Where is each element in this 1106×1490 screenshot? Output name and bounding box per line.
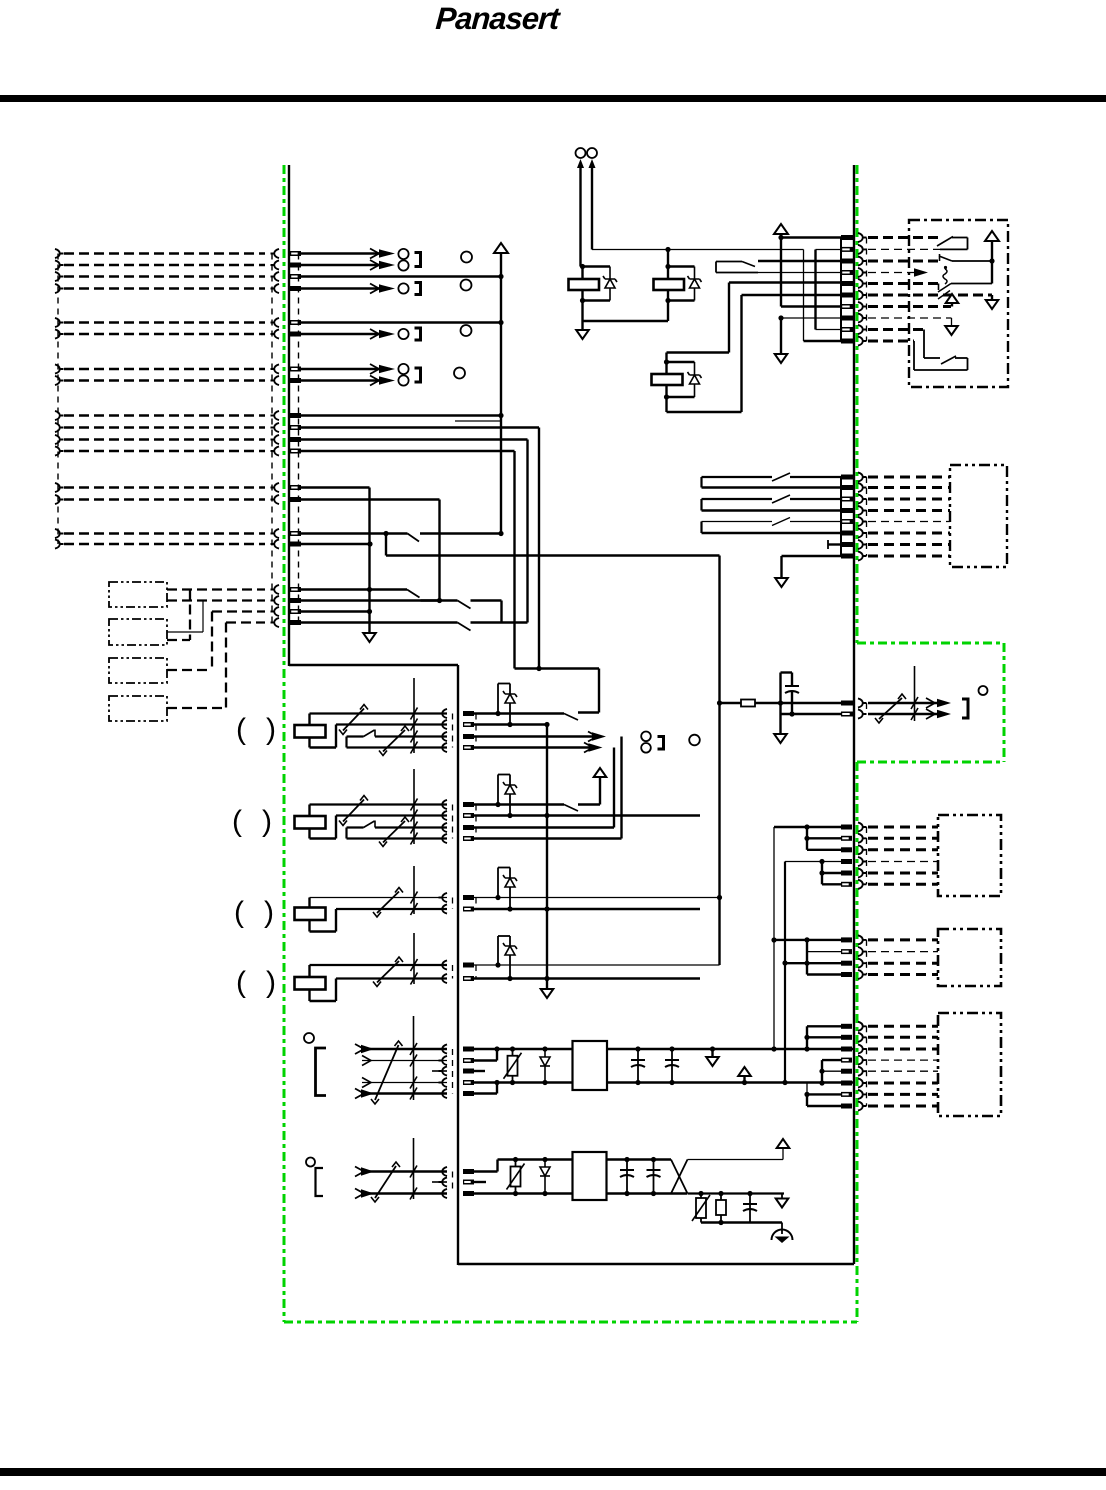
earth ground: [750, 1221, 782, 1223]
pendant bracket: [962, 699, 968, 718]
row 306 up arrow: [951, 302, 953, 307]
LD hooks: [439, 960, 448, 969]
wire row 334 lamp: [300, 333, 390, 335]
sensor box S2: [109, 619, 167, 645]
LB row3 wire up to lampA: [474, 826, 614, 828]
contact bar K3a: [700, 522, 702, 534]
group2 hooks: [858, 935, 867, 944]
row 341 wire: [804, 340, 842, 342]
power F blade: [375, 1166, 396, 1198]
LA row2: [336, 723, 447, 725]
power F pins: [463, 1169, 474, 1174]
row 237 wire: [781, 236, 841, 238]
indicator circle L1: [461, 252, 472, 263]
top rule: [0, 95, 1106, 102]
connector CN1 board pins: [290, 251, 301, 256]
snubber resistor: [720, 1194, 722, 1223]
LC row1 wire to bus719: [474, 897, 720, 899]
snubber rail: [688, 1192, 785, 1194]
lamp L3: [398, 329, 408, 339]
wire row 533 switch to bus: [300, 532, 408, 534]
svg-text:): ): [262, 805, 272, 838]
power F top rail: [498, 1158, 672, 1160]
LC row2 wire: [474, 908, 700, 910]
LB blade2: [383, 821, 405, 843]
up arrow B: [594, 768, 607, 777]
wire to supply arrow F: [688, 1159, 784, 1161]
cable harness CN3 wires: [55, 364, 64, 373]
cable harness CN6 wires: [55, 529, 64, 538]
ground arrow K1: [581, 321, 583, 329]
LD tick line: [413, 933, 415, 984]
row 556 ground: [782, 555, 842, 557]
ground arrow common: [541, 989, 554, 998]
cable harness CN4 wires: [55, 411, 64, 420]
pendant indicator circle: [979, 686, 988, 695]
board edge left upper: [288, 165, 290, 666]
row 329 wire: [816, 329, 842, 331]
pendant arrows: [937, 699, 951, 707]
capacitor C3: [626, 1160, 628, 1194]
stub wire 421: [455, 420, 501, 422]
power supply module PS1: [573, 1041, 608, 1090]
cable harness CN5 wires: [55, 483, 64, 492]
feed wire 2: [591, 163, 593, 250]
LB row1 wire switch: [474, 803, 564, 805]
feed arrows up: [577, 159, 584, 168]
power F bottom rail: [474, 1192, 687, 1194]
snubber bottom rail: [701, 1221, 750, 1223]
LB row4: [345, 828, 347, 839]
snubber capacitor: [749, 1194, 751, 1223]
wire to pin row272: [758, 272, 841, 274]
connector CN6 board pins: [290, 531, 301, 536]
svg-text:(: (: [234, 896, 244, 929]
lamp L1: [398, 249, 408, 259]
svg-text:(: (: [232, 805, 242, 838]
box rows dashed: [868, 236, 940, 239]
svg-text:(: (: [236, 713, 246, 746]
pendant cap loop: [779, 673, 781, 704]
connector pin dashed link: [298, 254, 300, 623]
power F pin jog: [474, 1170, 498, 1172]
indicator circle L3: [461, 325, 472, 336]
feed from upper buses: [515, 667, 600, 669]
LB hooks: [439, 800, 448, 809]
pendant switch rows: [868, 702, 944, 705]
latch relay LB coil: [295, 816, 326, 829]
operation dash-dot box: [950, 465, 1007, 567]
connector bar right middle: [840, 477, 842, 556]
connector CN4 board pins: [290, 413, 301, 418]
LB blade1: [343, 800, 364, 822]
green operator panel bump: [857, 642, 1004, 645]
diode D4: [544, 1049, 546, 1083]
relay K2 coil: [654, 279, 685, 290]
wire row 499 down: [300, 498, 440, 500]
LA row3 lamp wire: [474, 735, 598, 737]
power symbol E bracket: [316, 1048, 327, 1096]
wire row 288 lamp: [300, 287, 390, 289]
ground arrow right weave: [775, 354, 788, 363]
LA row1 wire switch: [474, 712, 564, 714]
green chassis border right lower: [856, 762, 859, 1322]
green chassis border bottom: [284, 1321, 857, 1324]
bottom rule: [0, 1468, 1106, 1476]
LB wiring: [308, 805, 310, 817]
power symbol F circle: [306, 1158, 315, 1167]
hook dashed link top right: [866, 238, 868, 342]
row 318 down arrow: [951, 318, 953, 326]
pendant ground: [779, 703, 781, 734]
contact bar K2a: [700, 499, 702, 511]
group1 dashed wires: [868, 826, 938, 829]
LA blade1: [343, 709, 364, 731]
svg-text:): ): [266, 713, 276, 746]
group1 hooks: [858, 822, 867, 831]
sensor box S3: [109, 658, 167, 683]
group2 pins: [841, 937, 852, 942]
row 544 stub: [828, 543, 841, 545]
indicator circle L4: [454, 368, 465, 379]
board edge bottom: [458, 1263, 854, 1265]
sensor row wires on board: [300, 588, 407, 590]
varistor VR1: [512, 1049, 514, 1083]
LB row1: [310, 803, 448, 805]
group1 pins: [841, 825, 852, 830]
ground arrow g5: [363, 633, 376, 642]
connector CN3 board pins: [290, 367, 301, 372]
supply arrow box: [985, 231, 999, 241]
weave verticals: [780, 233, 782, 307]
connector body dashed link right: [271, 254, 273, 624]
diode D2: [694, 267, 696, 301]
LC wiring: [308, 898, 310, 908]
stub 533 to long rail: [385, 534, 387, 556]
pendant row 703 resistor feed: [717, 700, 722, 705]
connector hooks right top: [858, 233, 867, 242]
power E tick line: [413, 1016, 415, 1100]
LA row1: [310, 712, 448, 714]
snubber varistor: [700, 1194, 702, 1223]
connector hooks right middle: [858, 472, 867, 481]
indicator circle L2: [461, 280, 472, 291]
LA tick line: [413, 678, 415, 753]
diode D3: [694, 362, 696, 397]
power E top rail: [474, 1048, 854, 1050]
green chassis border left: [283, 165, 286, 1322]
group3 wiring: [807, 1025, 841, 1027]
group3 pins: [841, 1024, 852, 1029]
LC pins: [463, 895, 474, 900]
lamp L4: [398, 364, 408, 374]
LA pins: [463, 711, 474, 716]
LA row3 switch: [347, 735, 364, 737]
pendant tick line: [914, 666, 916, 721]
varistor VR2: [515, 1160, 517, 1194]
pendant row 714: [781, 713, 842, 715]
connector pins right middle: [841, 475, 853, 480]
group1 wiring: [774, 826, 841, 828]
pendant switch blade: [879, 698, 902, 719]
row 318 wire: [781, 317, 841, 319]
LC row2: [336, 908, 447, 910]
LD row2: [336, 977, 447, 979]
indicator circle A: [689, 735, 700, 746]
output bus thick: [784, 862, 786, 1083]
cable harness CN2 wires: [55, 318, 64, 327]
cable harness CN1 wires: [55, 249, 64, 258]
interlock coil squiggle: [943, 269, 947, 284]
LB row3 switch: [347, 826, 364, 828]
wire row 451 to bus B: [300, 450, 515, 452]
capacitor C2: [671, 1049, 673, 1083]
relay K3 coil: [652, 374, 683, 385]
wire row 276 to +bus: [300, 275, 501, 277]
wire row 487 down: [300, 486, 370, 488]
LA row4 lamp wire: [474, 746, 594, 748]
connector bar right top: [840, 238, 842, 342]
power E wires in: [362, 1048, 447, 1050]
power E pin merge: [474, 1059, 497, 1061]
ground arrow E: [711, 1049, 713, 1057]
wire row 415 to bus: [300, 414, 501, 416]
LA row2 wire to common bus: [474, 723, 547, 725]
svg-text:): ): [264, 896, 274, 929]
door switch SW4 loop: [923, 330, 925, 359]
wire row 427 to bus D: [300, 426, 539, 428]
LC suppressor diode: [497, 868, 499, 898]
connector CN5 board pins: [290, 485, 301, 490]
contact bar K1a: [700, 477, 702, 488]
diode D5: [544, 1160, 546, 1194]
power E blade: [375, 1045, 399, 1100]
common bus down: [546, 725, 548, 990]
power supply module PS2: [573, 1152, 607, 1200]
output box B3: [938, 1013, 1001, 1116]
lamp L2: [398, 283, 408, 293]
sensor box S4: [109, 696, 167, 721]
LA row4: [345, 737, 347, 748]
arrow row272: [914, 268, 928, 276]
LB suppressor diode: [497, 775, 499, 805]
LB pins: [463, 802, 474, 807]
LD wiring: [308, 965, 310, 977]
LC tick line: [413, 866, 415, 914]
wire row 439 to bus C: [300, 438, 528, 440]
green chassis border right upper: [856, 165, 859, 643]
svg-text:Panasert: Panasert: [434, 1, 562, 36]
supply arrow bus: [494, 243, 508, 253]
group2 wiring: [774, 939, 841, 941]
LD suppressor diode: [497, 936, 499, 965]
power E pins: [463, 1047, 474, 1052]
operation box rows dashed: [868, 476, 950, 479]
LB row4 wire up to lampA: [474, 837, 622, 839]
LA hooks: [439, 709, 448, 718]
LD row1: [310, 964, 448, 966]
terminal circles: [576, 148, 586, 158]
LD pins: [463, 963, 474, 968]
latch relay LA coil: [295, 725, 326, 738]
door switch SW2: [939, 256, 952, 261]
door switch box: [909, 220, 1008, 387]
svg-text:): ): [266, 966, 276, 999]
long rail to lower board: [386, 554, 720, 556]
capacitor C4: [653, 1160, 655, 1194]
feed wire 1: [579, 163, 581, 267]
connector CN2 board pins: [290, 320, 301, 325]
output box B1: [938, 815, 1001, 896]
group3 dashed wires: [868, 1025, 938, 1028]
row 295 ground arrow: [991, 295, 993, 300]
LB row2 wire: [474, 814, 700, 816]
relay K1 common rail: [583, 320, 669, 322]
row 249 stub: [816, 249, 842, 251]
group3 hooks: [858, 1022, 867, 1031]
power symbol F bracket: [316, 1168, 324, 1196]
LB row2: [336, 814, 447, 816]
power symbol E circle: [304, 1033, 314, 1043]
LB tick line: [413, 769, 415, 844]
power F wires in: [362, 1170, 447, 1172]
svg-text:(: (: [236, 966, 246, 999]
connector body dashed link left: [57, 254, 59, 545]
connector pins right top: [841, 235, 853, 240]
supply arrow top right: [774, 224, 788, 234]
door switch SW3: [938, 284, 951, 293]
LD row2 wire: [474, 977, 700, 979]
power F hooks: [439, 1167, 448, 1176]
door switch SW1: [937, 237, 953, 247]
LC hooks: [439, 893, 448, 902]
wire rows g3 lamps: [300, 368, 390, 370]
board edge left lower: [457, 665, 459, 1265]
output box B2: [938, 929, 1001, 986]
K3 feed bottom: [665, 397, 667, 412]
row 306 wire: [781, 305, 841, 307]
K3 feed top: [665, 353, 667, 363]
latch relay LC coil: [295, 908, 326, 921]
output bus thin: [773, 827, 775, 1049]
LC blade: [377, 892, 399, 914]
LA blade2: [383, 730, 405, 752]
power E hooks: [439, 1044, 448, 1053]
wire row 544: [300, 543, 370, 545]
capacitor C1: [637, 1049, 639, 1083]
lamp LA1: [641, 732, 651, 742]
latch relay LD coil: [295, 977, 326, 990]
contact bar SW0: [715, 262, 717, 273]
sensor harness wires: [167, 588, 265, 590]
crossover X: [671, 1160, 688, 1194]
board edge step: [289, 664, 458, 666]
LA suppressor diode: [497, 684, 499, 714]
LD row1 wire to bus719: [474, 964, 720, 966]
supply arrow E: [743, 1076, 745, 1083]
LD blade: [377, 961, 399, 983]
wire rows g1: [300, 252, 390, 254]
ground arrow F: [781, 1194, 783, 1199]
power E bottom rail: [474, 1081, 854, 1083]
diode D1: [609, 267, 611, 301]
group2 dashed wires: [868, 938, 938, 941]
wire row 322 to +bus: [300, 321, 501, 323]
LC row1: [310, 897, 448, 899]
sensor box S1: [109, 582, 167, 607]
LA wiring: [308, 714, 310, 726]
relay K1 coil: [569, 279, 600, 290]
hook dashed link right middle: [866, 477, 868, 556]
power F tick line: [413, 1138, 415, 1199]
sensor connector pins: [290, 587, 301, 592]
pendant pins: [841, 701, 853, 706]
board edge right: [853, 165, 855, 1264]
wire to pin row261: [758, 260, 841, 262]
